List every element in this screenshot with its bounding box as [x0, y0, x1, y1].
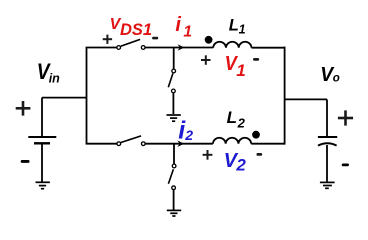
switch S1 blade — [121, 39, 140, 46]
wire output vertical joint — [284, 47, 286, 145]
plus sign V1 — [201, 55, 211, 65]
svg-text:2: 2 — [235, 156, 246, 175]
wire cap stem top — [326, 99, 328, 136]
svg-text:2: 2 — [184, 127, 193, 143]
inductor L1 — [213, 42, 251, 48]
switch S1 (top horizontal) — [117, 46, 145, 50]
minus sign V2 — [257, 153, 263, 156]
svg-text:L: L — [229, 17, 239, 35]
ground (output) — [320, 182, 335, 188]
wire bottom rail left — [86, 143, 117, 145]
ground (lower middle) — [167, 210, 181, 216]
dot L1 — [205, 36, 213, 44]
arrow i2 — [177, 140, 184, 147]
wire top rail left — [86, 47, 117, 49]
svg-text:DS1: DS1 — [120, 21, 152, 39]
battery plate short — [34, 142, 50, 144]
svg-text:1: 1 — [183, 24, 192, 41]
battery plate long — [28, 136, 56, 138]
minus sign VDS1 — [152, 37, 158, 40]
switch S4 blade — [168, 169, 173, 184]
plus sign Vin — [16, 101, 31, 116]
wire battery stem bottom — [41, 145, 43, 182]
wire Vo node — [285, 98, 327, 100]
ground (battery) — [36, 182, 50, 188]
svg-text:i: i — [175, 14, 181, 36]
plus sign VDS1 — [103, 35, 112, 44]
minus sign V1 — [253, 58, 259, 61]
wire bottom rail right of switch — [145, 143, 213, 145]
wire input riser — [86, 48, 88, 144]
wire battery top to riser — [42, 97, 87, 99]
svg-text:1: 1 — [239, 23, 246, 37]
switch S2 (upper vertical) — [173, 48, 175, 69]
minus sign Vo — [342, 164, 349, 167]
wire battery stem top — [41, 98, 43, 136]
switch S4 (lower vertical) — [173, 144, 175, 164]
capacitor Co plate top — [318, 136, 337, 138]
ground (upper middle) — [167, 115, 181, 121]
wire cap stem bottom — [326, 145, 328, 182]
arrow i1 — [178, 44, 185, 51]
minus sign Vin — [21, 160, 30, 163]
switch S2 blade — [168, 73, 173, 87]
plus sign Vo — [338, 110, 353, 125]
wire L2 to output corner — [251, 143, 284, 145]
plus sign V2 — [203, 150, 213, 160]
wire L1 to output corner — [252, 47, 285, 49]
svg-text:o: o — [333, 73, 340, 85]
voltage source Vin — [28, 98, 86, 182]
dot L2 — [252, 131, 260, 139]
svg-text:L: L — [227, 108, 237, 127]
capacitor Co plate curved — [318, 143, 337, 145]
svg-text:2: 2 — [237, 116, 246, 131]
switch S3 blade — [121, 136, 141, 143]
switch S3 (bottom horizontal) — [117, 142, 145, 146]
svg-text:in: in — [49, 71, 60, 85]
svg-text:1: 1 — [236, 61, 245, 80]
inductor L2 — [213, 138, 251, 144]
wire top rail right of switch — [145, 47, 213, 49]
